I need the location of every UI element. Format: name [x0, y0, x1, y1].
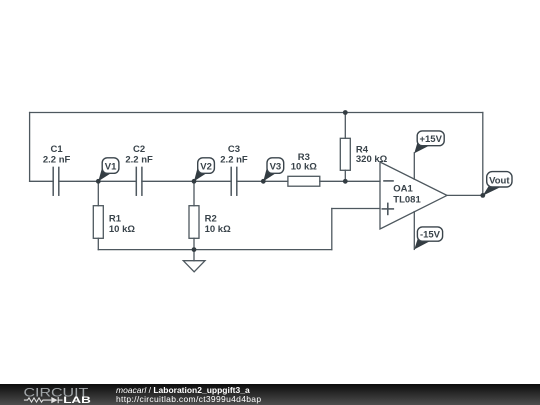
resistor R1 [93, 206, 103, 239]
svg-text:10 kΩ: 10 kΩ [109, 224, 135, 235]
wire +15V supply [413, 153, 415, 179]
capacitor C3 [231, 167, 237, 195]
label R4 value [356, 145, 388, 165]
node V1 flag [98, 158, 119, 182]
resistor R4 [340, 138, 350, 170]
wire R2 top lead [193, 181, 195, 205]
ground [183, 250, 205, 272]
wire left vertical [29, 113, 31, 182]
svg-text:-15V: -15V [420, 230, 441, 241]
node -15V flag [414, 227, 442, 250]
wire non-inverting input (vertical riser) [331, 209, 333, 250]
footer bar [0, 384, 540, 405]
wire main row: left edge to C1 [30, 180, 54, 182]
node R4 top junction dot [343, 110, 348, 115]
node V3 flag [263, 158, 283, 182]
wire R4 top lead [344, 113, 346, 139]
wire bottom rail [98, 249, 331, 251]
label C3 value [220, 144, 248, 165]
wire R1 top lead [97, 181, 99, 205]
svg-text:2.2 nF: 2.2 nF [43, 154, 71, 165]
node V2 flag [194, 158, 214, 182]
capacitor C1 [53, 167, 59, 195]
svg-text:V3: V3 [270, 161, 282, 172]
svg-text:V2: V2 [200, 161, 212, 172]
node ground junction dot [192, 247, 197, 252]
wire C2 to C3 [142, 180, 231, 182]
wire R2 bottom lead [193, 238, 195, 249]
svg-text:LAB: LAB [63, 396, 91, 405]
node +15V flag [414, 131, 444, 153]
svg-text:2.2 nF: 2.2 nF [220, 154, 248, 165]
wire -15V supply [413, 212, 415, 250]
op-amp OA1 [380, 162, 447, 229]
wire R4 bottom lead [344, 170, 346, 181]
svg-text:2.2 nF: 2.2 nF [125, 154, 153, 165]
wire top rail [30, 112, 483, 114]
svg-text:V1: V1 [105, 161, 117, 172]
svg-text:TL081: TL081 [393, 194, 421, 205]
wire R3 to op-amp inverting input [320, 180, 380, 182]
svg-text:+15V: +15V [419, 134, 442, 145]
wire feedback vertical [482, 113, 484, 196]
label C2 value [125, 144, 153, 165]
svg-text:OA1: OA1 [393, 183, 413, 194]
svg-text:10 kΩ: 10 kΩ [205, 224, 231, 235]
svg-text:10 kΩ: 10 kΩ [291, 161, 317, 172]
node V2 junction dot [192, 179, 197, 184]
footer text [116, 386, 261, 405]
node R4 bottom junction dot [343, 179, 348, 184]
resistor R3 [288, 176, 320, 186]
label OA1 TL081 [393, 183, 421, 205]
node V1 junction dot [96, 179, 101, 184]
wire non-inverting input (horizontal) [332, 208, 380, 210]
wire C1 to C2 [59, 180, 137, 182]
CircuitLab logo [0, 384, 110, 405]
label R3 value [291, 152, 317, 172]
label C1 value [43, 144, 71, 165]
wire op-amp output [447, 194, 483, 196]
wire R1 bottom lead [97, 238, 99, 249]
label R1 value [109, 214, 135, 235]
svg-text:320 kΩ: 320 kΩ [356, 154, 388, 165]
capacitor C2 [136, 167, 142, 195]
node Vout junction dot [480, 193, 485, 198]
wire C3 to R3 [237, 180, 288, 182]
node V3 junction dot [261, 179, 266, 184]
resistor R2 [189, 206, 199, 239]
svg-text:Vout: Vout [489, 175, 510, 186]
label R2 value [205, 214, 231, 235]
node Vout flag [483, 172, 512, 196]
